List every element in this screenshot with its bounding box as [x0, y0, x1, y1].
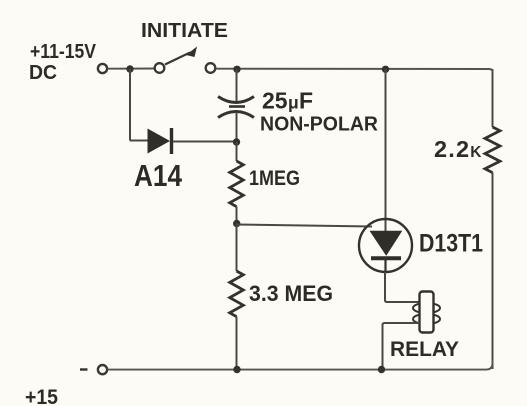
diode D1 A14 [148, 128, 172, 154]
wire top rail: switch to right corner [216, 68, 490, 70]
svg-text:DC: DC [29, 62, 57, 84]
resistor R1 1MEG [230, 142, 244, 224]
svg-text:25: 25 [262, 88, 288, 114]
wire D13T1 cathode to relay [385, 272, 419, 302]
wire bottom rail [108, 360, 493, 370]
terminal T2 (bottom return) [98, 365, 107, 374]
node junction J7 [378, 366, 385, 373]
wire gate to D13T1 [237, 225, 372, 227]
switch S1 INITIATE [155, 47, 216, 73]
svg-text:INITIATE: INITIATE [141, 19, 228, 42]
wire J1 down to diode [130, 69, 148, 141]
wire diode to J4 [173, 141, 237, 143]
terminal T1 (+11-15V DC input) [98, 64, 107, 73]
relay K1 coil [413, 292, 440, 333]
svg-text:+15: +15 [25, 386, 58, 406]
svg-text:3.3 MEG: 3.3 MEG [249, 281, 333, 306]
resistor R2 3.3 MEG [230, 224, 244, 370]
wire D13T1 anode from top rail [385, 69, 387, 231]
node junction J3 (D13T1 branch) [382, 66, 389, 73]
wire top rail: terminal to switch [108, 68, 156, 70]
wire capacitor branch bottom [236, 112, 238, 142]
svg-text:A14: A14 [134, 158, 183, 193]
node junction J4 [233, 138, 240, 145]
node junction J2 (capacitor branch) [233, 66, 240, 73]
svg-text:F: F [299, 88, 313, 114]
capacitor C1 25uF non-polar [218, 97, 254, 118]
node junction J1 [126, 65, 133, 72]
wire capacitor branch top [236, 69, 238, 102]
node junction J5 [233, 220, 240, 227]
wire top-right corner [489, 69, 493, 72]
svg-text:1MEG: 1MEG [249, 167, 300, 190]
wire relay to bottom rail [383, 323, 420, 369]
svg-text:D13T1: D13T1 [419, 230, 483, 258]
svg-text:+11-15V: +11-15V [30, 41, 97, 63]
resistor R3 2.2K [485, 69, 500, 369]
svg-text:NON-POLAR: NON-POLAR [260, 113, 378, 136]
transistor Q1 D13T1 [359, 219, 412, 272]
svg-text:μ: μ [288, 93, 299, 113]
svg-text:RELAY: RELAY [390, 338, 459, 361]
node junction J6 [233, 366, 240, 373]
label minus [80, 368, 88, 370]
